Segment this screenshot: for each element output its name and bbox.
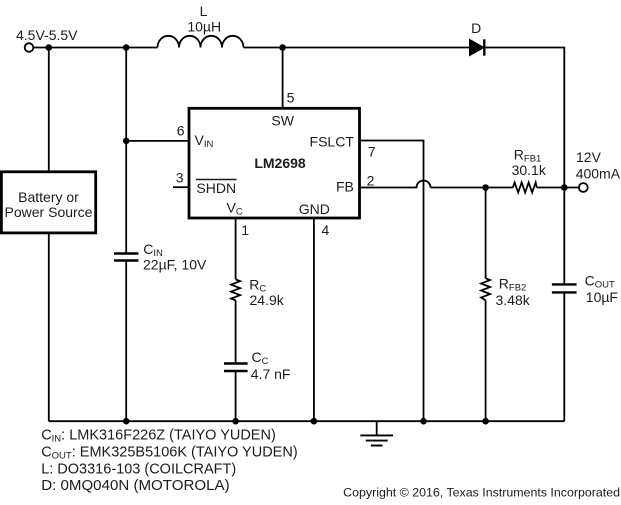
svg-text:1: 1 [241,222,249,238]
diode D [470,20,485,56]
svg-text:4: 4 [322,222,330,238]
svg-text:LM2698: LM2698 [254,155,306,171]
inductor L 10uH [158,3,244,48]
wire CIN to bottom rail [125,261,127,421]
svg-text:L: L [200,3,208,19]
wire RFB2 to bottom rail [485,300,487,421]
svg-text:7: 7 [368,143,376,159]
wire VIN pin 6 [126,140,189,142]
svg-text:FB: FB [336,178,354,194]
pin 2 wire FB with hop [360,181,513,188]
svg-text:6: 6 [177,122,185,138]
node bottom GND pin [311,418,318,425]
resistor RFB2 3.48k [481,276,531,309]
svg-text:5: 5 [287,89,295,105]
pin 5 wire SW [282,48,284,109]
resistor RFB1 30.1k [512,146,547,192]
svg-text:12V: 12V [576,149,602,165]
svg-text:3.48k: 3.48k [496,292,531,308]
svg-text:GND: GND [299,201,330,217]
wire COUT to bottom rail [563,292,565,421]
capacitor CC 4.7nF [224,349,291,382]
wire RC to CC [235,300,237,363]
wire inductor to diode [244,47,470,49]
node SW top junction [279,44,286,51]
svg-text:22µF, 10V: 22µF, 10V [143,257,207,273]
IC U1 LM2698 [189,108,360,218]
svg-text:3: 3 [176,169,184,185]
svg-text:D: 0MQ040N (MOTOROLA): D: 0MQ040N (MOTOROLA) [41,477,229,494]
svg-text:4.5V-5.5V: 4.5V-5.5V [16,27,78,43]
node CIN top junction [123,44,130,51]
wire right rail down to output node [563,47,565,188]
resistor RC 24.9k [231,277,285,309]
svg-text:Battery or: Battery or [18,189,79,205]
wire bottom rail [49,420,565,422]
wire input to inductor [33,47,157,49]
node bottom FSLCT [420,418,427,425]
node bottom CIN [123,418,130,425]
input terminal 4.5V-5.5V [16,27,78,52]
svg-text:D: D [471,20,481,36]
wire FB node down to RFB2 [485,188,487,279]
wire battery to bottom rail [48,233,50,421]
svg-text:30.1k: 30.1k [512,162,547,178]
capacitor CIN 22uF 10V [114,241,207,273]
svg-text:400mA: 400mA [576,166,621,182]
svg-text:Power Source: Power Source [5,204,93,220]
wire right rail output to COUT [563,188,565,285]
node bottom RFB2 [482,418,489,425]
pin 1 wire VC [235,218,237,279]
capacitor COUT 10uF [552,272,618,305]
svg-text:SW: SW [271,113,294,129]
wire left drop to battery [48,48,50,172]
node bottom CC [232,418,239,425]
svg-text:FSLCT: FSLCT [310,134,355,150]
pin 3 wire SHDN stub [173,186,189,188]
svg-text:4.7 nF: 4.7 nF [251,366,291,382]
node output junction [561,184,568,191]
node input junction [46,44,53,51]
wire RFB1 to output [537,187,579,189]
wire CC to bottom rail [235,371,237,421]
ground [360,421,393,445]
output terminal 12V 400mA [576,149,621,192]
pin 4 wire GND [313,218,315,421]
svg-text:L: DO3316-103 (COILCRAFT): L: DO3316-103 (COILCRAFT) [41,461,236,477]
battery box Battery or Power Source [1,172,95,233]
wire diode to right rail [484,47,564,49]
node VIN junction [123,138,130,145]
svg-text:10µH: 10µH [187,19,221,35]
node FB junction [482,184,489,191]
svg-text:Copyright © 2016, Texas Instru: Copyright © 2016, Texas Instruments Inco… [343,485,620,499]
svg-text:10µF: 10µF [586,289,618,305]
svg-text:24.9k: 24.9k [250,292,285,308]
svg-text:CIN: LMK316F226Z (TAIYO YUDEN): CIN: LMK316F226Z (TAIYO YUDEN) [41,428,276,445]
wire CIN branch upper [125,48,127,254]
svg-text:COUT: EMK325B5106K (TAIYO YUDE: COUT: EMK325B5106K (TAIYO YUDEN) [41,445,297,462]
pin 7 wire FSLCT [360,141,424,422]
svg-text:SHDN: SHDN [196,180,236,196]
svg-text:2: 2 [367,173,375,189]
